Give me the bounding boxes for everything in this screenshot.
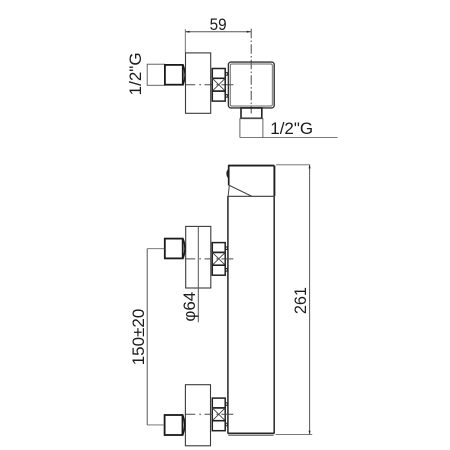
upper valve tick a [225, 247, 227, 250]
lower escutcheon (front) [185, 385, 210, 446]
handle right edge [273, 166, 275, 197]
upper valve stack top box [212, 243, 225, 253]
lower valve X box [212, 408, 225, 421]
upper union nut [165, 239, 183, 259]
wall plate / escutcheon (top view, side profile) [186, 53, 211, 113]
valve cartridge stack (top assembly) top box [212, 69, 225, 79]
lower union flange arc [183, 415, 185, 434]
body top line [228, 195, 275, 197]
union nut N1 (top view) [165, 65, 183, 85]
ext line 150 upper [147, 248, 164, 250]
arrow 261 top [309, 165, 311, 169]
dim line 150 [146, 249, 148, 425]
arrow right of 59 dim [247, 31, 251, 33]
handle top edge [229, 165, 275, 167]
wall pipe stub (top view) [147, 64, 164, 85]
dimension 59 line [185, 31, 251, 33]
valve bottom box (top assembly) [212, 91, 225, 101]
body bottom second line [228, 434, 273, 436]
body left edge [227, 196, 229, 433]
arrow left of 59 dim [185, 31, 189, 33]
tick lower (top assembly valve) [225, 95, 227, 98]
outlet stub step (thick) [241, 108, 262, 118]
body outlet square (top view) outer [228, 62, 274, 108]
lower centerline [185, 413, 234, 415]
handle left lower slant [228, 185, 229, 196]
handle left edge [228, 165, 230, 186]
extension line left of 59 dim [184, 29, 186, 53]
leader underline for 1/2"G bottom [240, 137, 338, 139]
upper centerline [185, 258, 234, 260]
arrow 261 bottom [309, 431, 311, 435]
svg-text:261: 261 [292, 287, 310, 314]
svg-text:59: 59 [210, 15, 227, 34]
svg-text:φ64: φ64 [180, 292, 199, 322]
lower valve bottom box [212, 421, 225, 431]
lower valve tick a [225, 403, 227, 406]
upper union flange arc [183, 239, 185, 258]
valve X box (top assembly) [212, 78, 225, 91]
outlet stub lower pipe [240, 118, 263, 137]
handle underside diagonal [229, 185, 252, 196]
upper valve bottom box [212, 265, 225, 275]
ext line 261 top [276, 164, 310, 166]
dim line 261 [309, 165, 311, 435]
phi64 leader line [197, 226, 199, 322]
body right edge [273, 196, 275, 433]
tick upper (top assembly valve) [225, 73, 227, 76]
handle paddle bulge arc [227, 169, 229, 178]
union flange arc (top view) [183, 65, 185, 84]
svg-text:1/2"G: 1/2"G [126, 52, 145, 95]
lower union nut [165, 415, 183, 435]
body bottom edge [228, 432, 275, 434]
upper escutcheon (front) [186, 226, 211, 288]
svg-text:1/2"G: 1/2"G [270, 119, 313, 138]
centerline vertical through outlet square (also right ext of 59) [250, 29, 252, 114]
centerline horizontal top assembly [185, 84, 234, 86]
upper valve tick b [225, 269, 227, 272]
upper valve X box [212, 252, 225, 265]
lower valve stack top box [212, 398, 225, 408]
lower valve tick b [225, 423, 227, 426]
ext line 150 lower [147, 424, 164, 426]
ext line 261 bottom [276, 433, 313, 435]
svg-text:150±20: 150±20 [129, 309, 148, 366]
body outlet square inner line [230, 64, 272, 106]
